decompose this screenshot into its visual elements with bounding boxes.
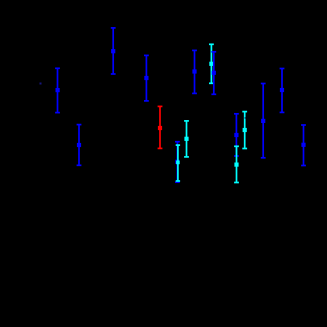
marker P6 [175, 160, 179, 164]
errorbar P3 (blue) [111, 28, 116, 74]
errorbar P9 (cyan) [209, 44, 214, 83]
marker P8 [192, 69, 196, 73]
errorbar P10 (blue) [211, 52, 216, 95]
marker P4 [144, 76, 148, 80]
errorbar P1 (blue) [55, 68, 60, 112]
marker P6b [176, 161, 180, 165]
errorbar P5 (red) [158, 106, 163, 148]
small notch on P12 line [245, 117, 246, 119]
marker P13 [261, 119, 265, 123]
errorbar P2 (blue) [77, 125, 82, 166]
marker P11b [234, 163, 238, 167]
errorbar P15 (blue) [301, 125, 306, 166]
errorbar P4 (blue) [144, 55, 149, 101]
marker P14 [280, 88, 284, 92]
errorbar P8 (blue) [192, 50, 197, 93]
errorbar P13 (blue) [261, 84, 266, 158]
errorbar P11b (cyan, below P11) [234, 146, 239, 182]
errorbar P14 (blue) [280, 69, 285, 113]
faint point P0 (dim blue dot) [40, 83, 42, 85]
errorbar P6 (blue, behind cyan pair) [175, 142, 180, 183]
marker P10 [212, 71, 216, 75]
errorbar P11 (blue) [234, 114, 239, 156]
marker P5 [158, 126, 162, 130]
marker P7 [184, 137, 188, 141]
marker P2 [77, 143, 81, 147]
errorbar P12 (cyan) [242, 112, 247, 149]
errorbar P6b (cyan, overlapping P6) [176, 145, 180, 181]
marker P12 [243, 128, 247, 132]
marker P15 [301, 143, 305, 147]
marker P9 [209, 62, 213, 66]
marker P11 [234, 133, 238, 137]
marker P3 [111, 49, 115, 53]
marker P1 [56, 88, 60, 92]
errorbar P7 (cyan) [184, 121, 189, 157]
